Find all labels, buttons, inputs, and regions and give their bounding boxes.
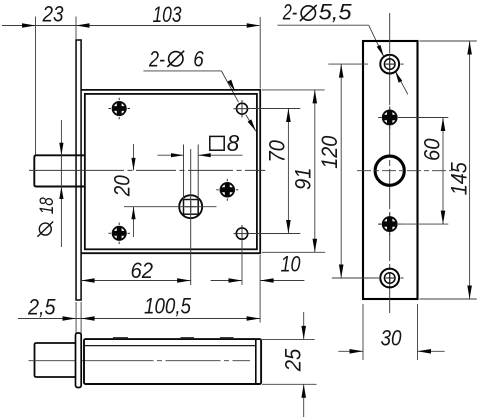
svg-text:91: 91 <box>290 167 315 190</box>
svg-text:10: 10 <box>281 252 302 277</box>
plate vertical centerline <box>389 13 391 314</box>
dim 23 arrow left <box>22 23 36 28</box>
dim 8 line left segment <box>158 154 184 156</box>
dim 30 extension left <box>362 304 364 360</box>
dim 60 line <box>442 118 444 225</box>
dim 30 extension right <box>417 304 419 360</box>
svg-text:2,5: 2,5 <box>27 295 56 320</box>
dim 91 extension top <box>262 89 325 91</box>
dim 10 left tail <box>211 280 242 282</box>
dim 103 arrow right <box>247 23 261 28</box>
dim 145 arrow up <box>467 41 472 55</box>
extension line body right x260 below <box>259 255 261 323</box>
screw mid-right <box>221 183 235 197</box>
svg-text:100,5: 100,5 <box>144 294 192 319</box>
hole phi6 bottom-right <box>236 228 247 239</box>
svg-text:5,5: 5,5 <box>319 0 353 25</box>
dim 25 line bottom tail <box>303 384 305 417</box>
dim 91 arrow down <box>313 239 318 253</box>
dim 30 line left tail <box>338 350 363 352</box>
dim 91 line <box>314 90 316 252</box>
dim 145 extension bottom <box>420 298 477 300</box>
dim phi18 arrow up <box>59 187 63 200</box>
dim 91 arrow up <box>313 90 318 104</box>
cross screw hole lower <box>383 217 397 231</box>
dim 10 right tail <box>260 280 304 282</box>
side view centerline <box>29 360 251 362</box>
dim phi18 arrow down <box>59 143 63 156</box>
latch bolt front view <box>34 155 85 186</box>
dim 145 extension top <box>420 40 477 42</box>
dim 25 arrow up (outside) <box>301 384 306 398</box>
countersunk hole top outer <box>380 55 399 74</box>
dim 20 line bottom <box>133 207 135 237</box>
countersunk hole bottom centerline right tick <box>401 277 404 279</box>
lock body inner outline <box>85 94 257 249</box>
dim phi18 line through latch <box>60 155 62 186</box>
countersunk hole top cross <box>385 63 394 65</box>
faceplate side plate outline <box>363 41 418 299</box>
dim 8 line right segment <box>198 154 242 156</box>
dim 91 extension bottom <box>262 251 325 253</box>
dim 120 line <box>340 64 342 278</box>
dim 30 arrow right (outside) <box>418 349 432 354</box>
dim 25 line top tail <box>303 312 305 339</box>
dim 145 arrow down <box>467 286 472 300</box>
leader 2-phi6 arrowhead on top edge <box>227 80 235 92</box>
svg-text:6: 6 <box>193 47 204 72</box>
countersunk hole bottom outer <box>380 269 399 288</box>
dim 60 text <box>420 138 445 161</box>
countersunk hole top inner <box>384 59 395 70</box>
svg-text:70: 70 <box>264 139 289 162</box>
svg-text:103: 103 <box>153 2 183 27</box>
faceplate cross-section bar <box>76 333 82 388</box>
countersunk hole top centerline right tick <box>401 63 404 65</box>
dim 70 extension top <box>249 108 300 110</box>
svg-text:18: 18 <box>36 197 58 214</box>
cylinder hole big ring <box>375 156 404 185</box>
dim 30 line right tail <box>418 350 445 352</box>
dim 20 line top <box>133 144 135 170</box>
horizontal centerline of latch <box>29 169 265 171</box>
svg-text:120: 120 <box>317 135 342 169</box>
leader 2-phi5,5 arrowhead upper <box>377 45 384 57</box>
dim 100,5 arrow left <box>81 316 95 321</box>
leader 2-phi6 arrowhead at right edge <box>248 119 256 131</box>
dim 25 text <box>281 348 306 372</box>
dim 103 arrow left (outside at x76) <box>76 23 90 28</box>
dim 2,5 arrow <box>63 316 77 321</box>
dim 23/103 dimension line <box>2 25 259 27</box>
svg-text:30: 30 <box>381 326 403 351</box>
dim 70 arrow up <box>286 109 291 123</box>
leader 2-phi5,5 arrowhead lower pointing back <box>395 71 402 83</box>
lock body outer outline (cover plate) <box>81 90 260 253</box>
dim 20 arrow down <box>131 158 135 171</box>
faceplate extension lines below <box>75 302 77 333</box>
dim 8 arrow right <box>198 153 211 157</box>
svg-text:62: 62 <box>131 258 154 283</box>
square hole horizontal line <box>124 206 217 208</box>
dim 120 arrow up <box>339 64 344 78</box>
svg-text:8: 8 <box>227 130 240 156</box>
cross screw hole lower extension right (60 ext) <box>398 223 448 225</box>
cross screw hole upper tick left <box>378 117 381 119</box>
dim phi18 line bottom <box>60 187 62 248</box>
dim 100,5 arrow right <box>247 316 261 321</box>
lock body side view outline <box>84 339 261 384</box>
countersunk hole bottom centerline left (120 ext) <box>332 277 379 279</box>
dim phi18 text <box>39 223 51 235</box>
dim 70 text <box>264 139 289 162</box>
cylinder hole horizontal centerline <box>357 170 453 172</box>
lock body side cap left edge <box>255 340 257 383</box>
latch bolt side view <box>35 343 77 377</box>
svg-text:25: 25 <box>281 348 306 372</box>
screw top-left <box>113 102 126 115</box>
extension line faceplate left top x76 <box>75 17 77 40</box>
dim 10 arrow left <box>229 278 243 283</box>
screw bottom-left <box>113 227 126 240</box>
countersunk hole bottom cross <box>385 277 394 279</box>
dim 120 text <box>317 135 342 169</box>
hole phi6 top-right <box>237 103 248 114</box>
dim 25 arrow down (outside) <box>301 326 306 340</box>
dim square-8 label <box>210 136 224 150</box>
dim 25 extension bottom <box>262 383 317 385</box>
svg-text:2-: 2- <box>282 0 297 25</box>
square spindle hole square <box>184 200 199 215</box>
dim 62 line <box>81 280 191 282</box>
svg-text:60: 60 <box>420 138 445 161</box>
dim 70 extension bottom <box>249 233 300 235</box>
dim 25 extension top <box>260 338 315 340</box>
countersunk hole bottom inner <box>384 273 395 284</box>
dim 30 arrow left (outside) <box>350 349 364 354</box>
side view tab 2 <box>181 338 194 339</box>
square spindle hole cross <box>185 206 197 208</box>
dim 60 arrow up <box>441 118 446 132</box>
extension line hole column x242 <box>241 239 243 285</box>
dim 62 arrow right <box>177 278 191 283</box>
side view tab 3 <box>221 338 234 339</box>
dim 60 arrow down <box>441 211 446 225</box>
leader 2-phi6 line <box>143 70 221 72</box>
dim 70 arrow down <box>286 220 291 234</box>
svg-text:2-: 2- <box>148 47 165 72</box>
svg-text:145: 145 <box>446 162 471 196</box>
cross screw hole upper extension right (60 ext) <box>398 117 448 119</box>
cross screw hole lower tick left <box>378 223 381 225</box>
dim 100,5 and 2,5 dimension line <box>18 318 260 320</box>
dim 20 text <box>109 175 134 198</box>
dim 8 arrow left <box>171 153 184 157</box>
hole phi6 bottom-right crosshair <box>234 233 250 235</box>
faceplate front view <box>76 40 81 300</box>
dim phi18 line top <box>60 120 62 155</box>
extension line body right top x260 <box>259 17 261 89</box>
square side extension lines <box>183 145 185 200</box>
svg-text:20: 20 <box>109 175 134 198</box>
lock body side lid seam <box>85 345 256 347</box>
countersunk hole top centerline left (120 ext) <box>328 63 368 65</box>
dim 120 arrow down <box>339 265 344 279</box>
dim 10 arrow right <box>260 278 274 283</box>
square spindle hole circle <box>179 195 202 218</box>
cross screw hole upper <box>383 111 397 125</box>
leader 2-phi5,5 lines <box>278 24 369 26</box>
dim 62 arrow left <box>81 278 95 283</box>
dim 145 line <box>469 41 471 299</box>
svg-text:23: 23 <box>42 2 65 27</box>
dim 20 arrow up <box>131 207 135 220</box>
square hole vertical centerline <box>190 149 192 285</box>
dim 70 line <box>287 109 289 234</box>
hole phi6 top-right crosshair <box>234 108 250 110</box>
extension line latch tip x35.5 <box>35 17 37 155</box>
dim 145 text <box>446 162 471 196</box>
side view tab 1 <box>114 338 128 339</box>
dim 91 text <box>290 167 315 190</box>
